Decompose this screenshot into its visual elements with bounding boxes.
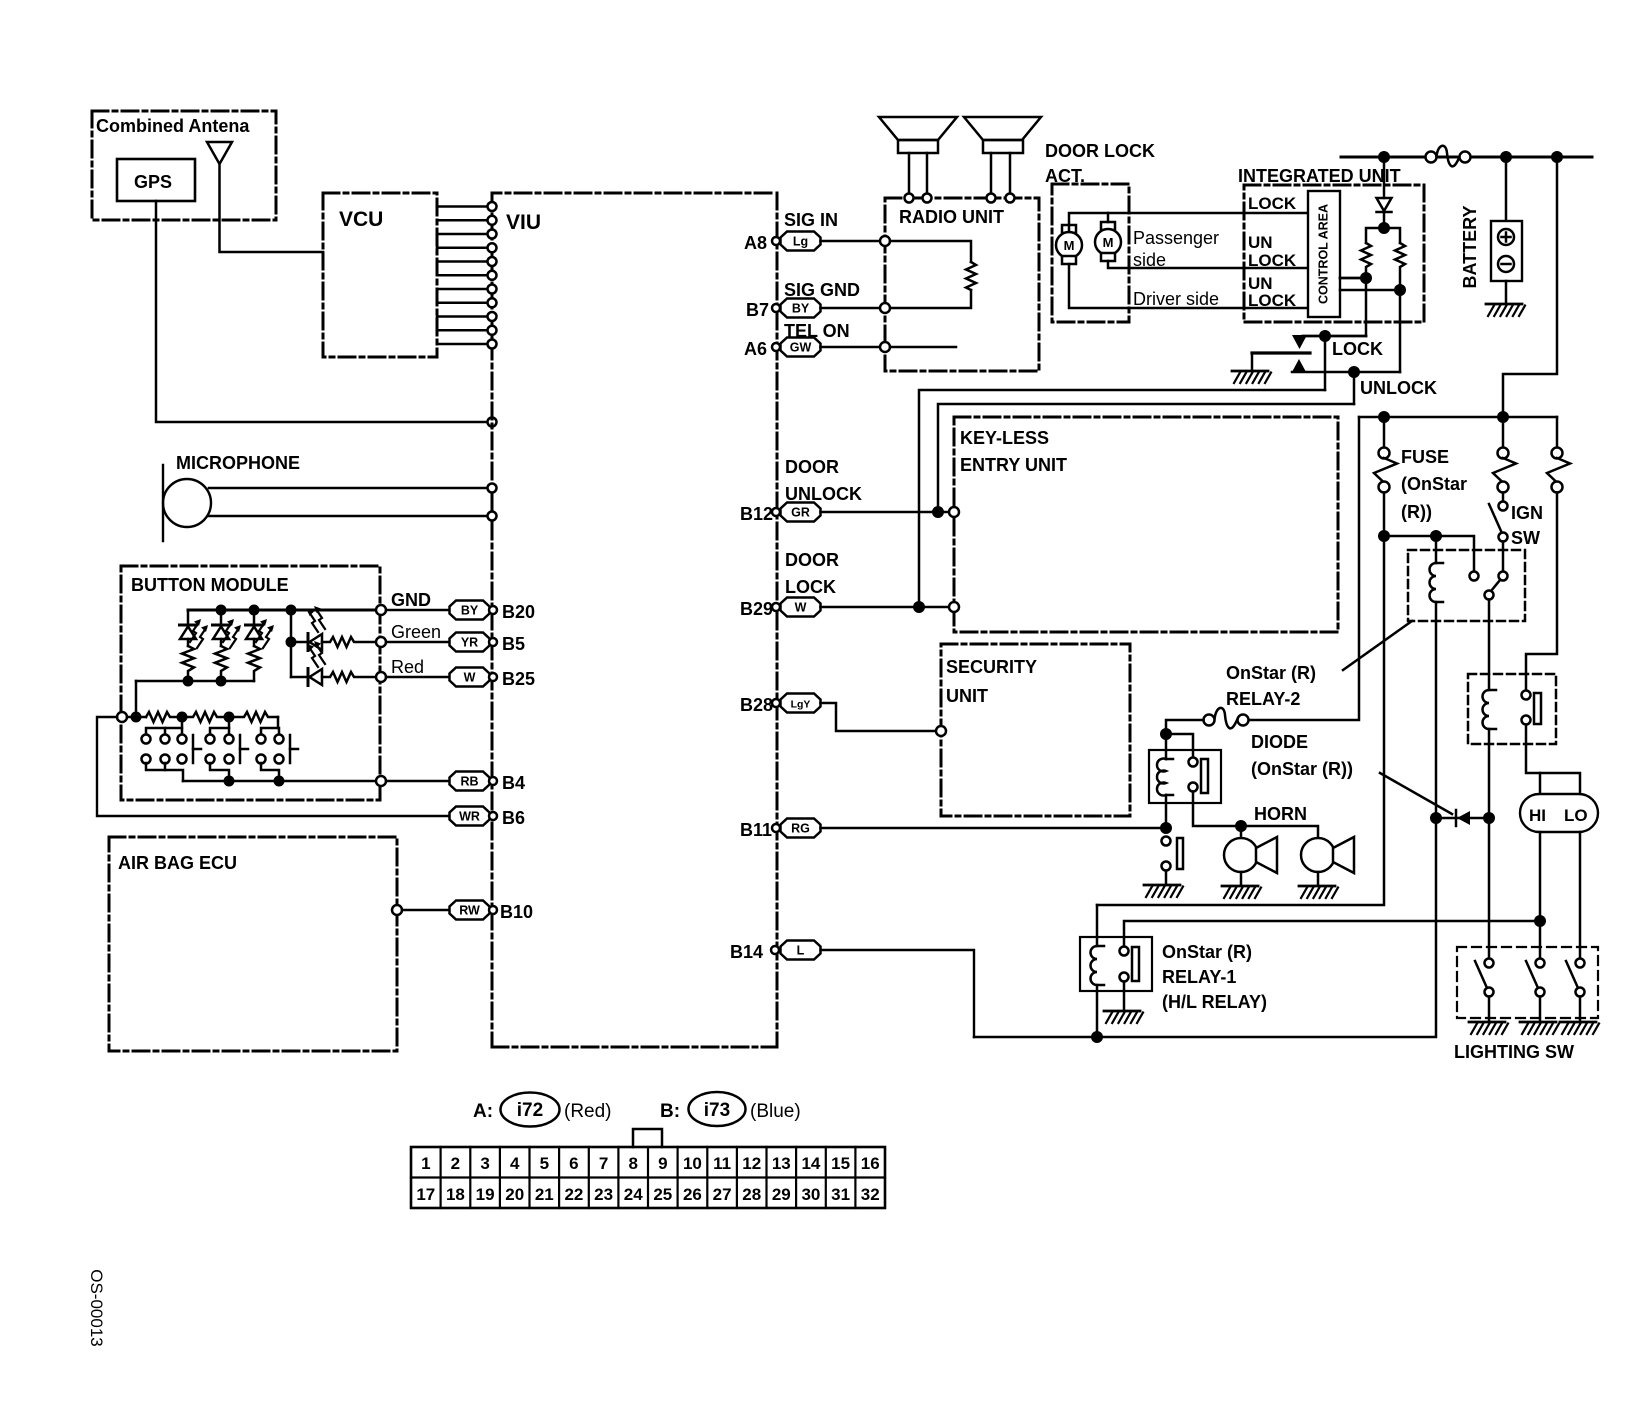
key-less input circle 1 xyxy=(949,507,959,517)
svg-text:W: W xyxy=(464,671,476,685)
node: button module GND out xyxy=(376,605,386,615)
switch SW1a contacts xyxy=(142,735,151,764)
LED D1 xyxy=(180,610,209,648)
combined antenna unit box xyxy=(92,111,276,220)
LED D3 xyxy=(246,610,275,648)
lighting switch 2 xyxy=(1526,959,1545,1021)
wire unlock node down xyxy=(1399,290,1402,372)
wire horn switch to ground xyxy=(1165,871,1168,885)
lock/unlock switch common bar xyxy=(1252,351,1310,354)
horn switch lower contact xyxy=(1162,862,1171,871)
svg-text:(OnStar: (OnStar xyxy=(1401,474,1467,494)
switch SW1c contacts xyxy=(178,735,187,764)
switch SW1b contacts xyxy=(161,735,170,764)
wire R8 to switch group 3 xyxy=(277,717,280,728)
wire fuse to IGN switch xyxy=(1502,493,1505,501)
VIU pin circle 2 xyxy=(488,216,497,225)
svg-text:1: 1 xyxy=(421,1154,430,1173)
svg-text:UN: UN xyxy=(1248,233,1273,252)
wire fuse output down xyxy=(1383,493,1386,537)
wire B6 return loop xyxy=(97,717,450,816)
wire lock line xyxy=(1069,213,1308,232)
diode D2 (OnStar) xyxy=(1456,810,1470,826)
VIU pin circle 8 xyxy=(488,298,497,307)
microphone wire + xyxy=(209,487,487,490)
VIU pin circle 3 xyxy=(488,230,497,239)
horn relay coil xyxy=(1157,734,1173,828)
svg-text:VIU: VIU xyxy=(506,211,541,234)
security input circle xyxy=(936,726,946,736)
wire lock output down-left xyxy=(1324,336,1327,390)
svg-text:YR: YR xyxy=(461,636,478,650)
connector grid horizontal divider xyxy=(411,1176,885,1178)
svg-text:LIGHTING SW: LIGHTING SW xyxy=(1454,1042,1574,1062)
pin circle B7 xyxy=(772,304,780,312)
svg-text:DOOR: DOOR xyxy=(785,550,839,570)
resistor R7 xyxy=(182,712,229,722)
IGN switch blade xyxy=(1489,504,1501,531)
wire HI lamp feed xyxy=(1539,773,1542,794)
VIU pin circle 7 xyxy=(488,285,497,294)
relay2 fixed contact circle xyxy=(1470,572,1479,581)
wire resistor to SIG GND xyxy=(890,290,971,308)
svg-text:10: 10 xyxy=(683,1154,702,1173)
lighting switch 1 xyxy=(1475,959,1494,1021)
connector i72 ellipse xyxy=(501,1093,560,1127)
node: horn1 tap xyxy=(1235,820,1247,832)
resistor R1 (LED1) xyxy=(182,646,194,681)
wire H/L relay out to lamps xyxy=(1526,725,1580,795)
svg-text:18: 18 xyxy=(446,1185,465,1204)
svg-text:VCU: VCU xyxy=(339,208,383,231)
svg-text:16: 16 xyxy=(861,1154,880,1173)
svg-text:B10: B10 xyxy=(500,902,533,922)
VIU pin circle 6 xyxy=(488,271,497,280)
resistor R3 (LED3) xyxy=(248,646,260,681)
wire resistor pair feed xyxy=(1366,228,1400,243)
switch SW3a contacts xyxy=(257,735,266,764)
ground: relay1 xyxy=(1104,1011,1143,1023)
switch group2 stem2 xyxy=(228,728,231,734)
radio unit box xyxy=(885,198,1039,371)
node: radio SIG GND junction xyxy=(880,303,890,313)
wire B7 to radio xyxy=(821,307,881,310)
VCU-VIU harness wire 10 xyxy=(437,329,486,332)
svg-text:21: 21 xyxy=(535,1185,554,1204)
node: button matrix input circle xyxy=(117,712,127,722)
wire fuse to horn relay xyxy=(1166,720,1204,734)
node: mic wire 2 at VIU xyxy=(488,512,497,521)
integrated unit box xyxy=(1244,185,1424,322)
svg-text:3: 3 xyxy=(480,1154,489,1173)
fuse (IGN circuit) xyxy=(1493,448,1516,493)
VCU-VIU harness wire 7 xyxy=(437,288,486,291)
wire GND to BY oval xyxy=(386,609,450,612)
svg-text:RG: RG xyxy=(791,822,810,836)
switch group3 stem2 xyxy=(278,728,281,734)
HI LO headlamp symbol xyxy=(1520,794,1598,832)
connector oval WR (B6) xyxy=(450,807,490,826)
node: diode cathode junction xyxy=(1378,222,1390,234)
wire B12 to key-less xyxy=(821,511,951,514)
horn 2 xyxy=(1301,837,1354,885)
svg-text:RELAY-2: RELAY-2 xyxy=(1226,689,1300,709)
switch group1 actuator bar xyxy=(193,735,201,763)
antenna stem wire xyxy=(220,164,324,252)
VIU pin circle 10 xyxy=(488,326,497,335)
svg-text:14: 14 xyxy=(801,1154,820,1173)
VCU-VIU harness wire 4 xyxy=(437,247,486,250)
wire fuse output to relay1 feed xyxy=(1097,536,1384,905)
relay1 lower contact xyxy=(1120,973,1129,982)
svg-text:LO: LO xyxy=(1564,806,1588,825)
fuse (headlamp circuit) xyxy=(1547,448,1570,493)
lighting switch box xyxy=(1457,947,1598,1018)
wire airbag to RW oval xyxy=(402,909,450,912)
wire control area to unlock node xyxy=(1340,289,1400,292)
wire relay1 contact to HI lamp xyxy=(1124,921,1540,947)
relay2 contact blade xyxy=(1491,580,1500,591)
OnStar relay-2 box xyxy=(1408,550,1525,621)
node on GND bus at LED branch xyxy=(286,605,297,616)
svg-text:KEY-LESS: KEY-LESS xyxy=(960,428,1049,448)
wire battery to ground xyxy=(1505,281,1508,303)
svg-text:12: 12 xyxy=(742,1154,761,1173)
node: button matrix out xyxy=(376,776,386,786)
LED cathode bus wire xyxy=(136,680,254,683)
svg-text:IGN: IGN xyxy=(1511,503,1543,523)
svg-text:Passenger: Passenger xyxy=(1133,228,1219,248)
wire LO lamp down xyxy=(1579,832,1582,958)
wire branch to green/red LEDs xyxy=(290,610,293,677)
svg-text:MICROPHONE: MICROPHONE xyxy=(176,453,300,473)
horn relay upper contact xyxy=(1189,758,1198,767)
connector oval YR (B5) xyxy=(450,633,490,652)
pin circle B20 xyxy=(489,606,497,614)
svg-text:24: 24 xyxy=(624,1185,643,1204)
node after R6 xyxy=(177,712,188,723)
relay2 lower contact circle xyxy=(1485,591,1494,600)
LED D2 xyxy=(213,610,242,648)
svg-text:A8: A8 xyxy=(744,233,767,253)
svg-text:WR: WR xyxy=(459,810,480,824)
node: fuse tap xyxy=(1378,411,1390,423)
svg-text:23: 23 xyxy=(594,1185,613,1204)
node: relay2 coil feed xyxy=(1430,530,1442,542)
svg-text:B4: B4 xyxy=(502,773,525,793)
svg-text:BY: BY xyxy=(461,604,479,618)
svg-text:SIG IN: SIG IN xyxy=(784,210,838,230)
node: diode cathode junction 2 xyxy=(1483,812,1495,824)
connector pin numbers row 1 xyxy=(421,1154,880,1173)
ground: horn 1 xyxy=(1222,886,1261,898)
pointer line to relay-2 xyxy=(1343,621,1412,670)
node: battery tap xyxy=(1500,151,1512,163)
node: unlock output xyxy=(1348,366,1360,378)
relay1 upper contact xyxy=(1120,947,1129,956)
wire motor2 stem up xyxy=(1107,213,1110,222)
VIU left dashed boundary xyxy=(491,193,494,1047)
svg-text:GW: GW xyxy=(790,341,812,355)
wire right branch fuse top xyxy=(1556,417,1559,447)
switch group1 bottom stem2 xyxy=(164,763,167,770)
UN LOCK row2 label xyxy=(1248,274,1297,310)
ground: lighting sw 3 xyxy=(1560,1022,1599,1034)
microphone flat element bar xyxy=(162,465,164,541)
wire rail left drop to relay2 fuse xyxy=(1249,417,1360,720)
node: mic wire 1 at VIU xyxy=(488,484,497,493)
motor M2 xyxy=(1095,222,1121,261)
svg-text:UNLOCK: UNLOCK xyxy=(1360,378,1437,398)
connector oval W (B25) xyxy=(450,668,490,687)
node: red out xyxy=(376,672,386,682)
wire relay2 coil return to B14 line xyxy=(974,818,1436,1037)
connector pin grid outline xyxy=(411,1147,885,1208)
VIU pin circle 9 xyxy=(488,312,497,321)
wire control area to lock node xyxy=(1340,277,1366,280)
wire relay1 contact to ground xyxy=(1123,982,1126,1011)
connector oval GW (A6) xyxy=(781,338,821,357)
wire green to YR oval xyxy=(386,641,450,644)
connector key tab xyxy=(633,1129,662,1147)
svg-text:5: 5 xyxy=(540,1154,549,1173)
svg-text:(H/L RELAY): (H/L RELAY) xyxy=(1162,992,1267,1012)
GPS output wire xyxy=(156,201,486,422)
H/L relay box xyxy=(1468,674,1556,744)
svg-text:2: 2 xyxy=(451,1154,460,1173)
svg-text:A6: A6 xyxy=(744,339,767,359)
key-less input circle 2 xyxy=(949,602,959,612)
VCU-VIU harness wire 2 xyxy=(437,219,486,222)
svg-text:W: W xyxy=(795,601,807,615)
resistor R2 (LED2) xyxy=(215,646,227,681)
switch group2 bottom bus xyxy=(210,763,229,781)
horn relay box xyxy=(1149,750,1221,803)
resistor R8 xyxy=(229,712,278,722)
connector oval BY (B20) xyxy=(450,601,490,620)
svg-text:RELAY-1: RELAY-1 xyxy=(1162,967,1236,987)
svg-text:A:: A: xyxy=(473,1101,493,1122)
wire unlock driver line xyxy=(1069,264,1308,308)
VCU-VIU harness wire 9 xyxy=(437,315,486,318)
svg-text:17: 17 xyxy=(416,1185,435,1204)
VIU pin circle 5 xyxy=(488,257,497,266)
IGN switch upper contact xyxy=(1499,502,1508,511)
IGN fuse wire top xyxy=(1502,417,1505,447)
node on bottom bus g3 xyxy=(274,776,285,787)
svg-text:OnStar (R): OnStar (R) xyxy=(1162,942,1252,962)
wire relay2 switch feed xyxy=(1384,536,1474,571)
resistor R5 (red) xyxy=(322,672,377,682)
svg-text:side: side xyxy=(1133,250,1166,270)
node: airbag output circle xyxy=(392,905,402,915)
VCU-VIU harness wire 6 xyxy=(437,274,486,277)
svg-text:INTEGRATED UNIT: INTEGRATED UNIT xyxy=(1238,166,1401,186)
svg-text:Lg: Lg xyxy=(793,235,808,249)
pin circle B10 xyxy=(489,906,497,914)
door lock actuator box xyxy=(1052,184,1129,322)
horn switch upper contact xyxy=(1162,837,1171,846)
wire red to W oval xyxy=(386,676,450,679)
wire B29 to key-less xyxy=(821,606,951,609)
wire unlock output down-left xyxy=(1353,372,1356,404)
switch group1 top bus xyxy=(146,717,182,734)
svg-text:(Blue): (Blue) xyxy=(750,1101,801,1122)
svg-text:LOCK: LOCK xyxy=(1248,251,1297,270)
wire matrix out to RB oval xyxy=(386,780,450,783)
ground: lock switch xyxy=(1232,371,1271,383)
svg-text:RW: RW xyxy=(459,904,480,918)
node: GPS wire to VIU xyxy=(488,418,497,427)
wire headlamp feed to H/L relay contact xyxy=(1526,493,1557,691)
svg-text:GPS: GPS xyxy=(134,172,172,192)
switch SW3b contacts xyxy=(275,735,284,764)
OnStar relay-1 box xyxy=(1080,937,1152,991)
switch SW2a contacts xyxy=(206,735,215,764)
node: relay1 coil tap xyxy=(1091,1031,1103,1043)
connector grid vertical dividers xyxy=(441,1147,856,1208)
ground: lighting sw 1 xyxy=(1469,1022,1508,1034)
node after R7 xyxy=(224,712,235,723)
svg-text:SW: SW xyxy=(1511,528,1540,548)
svg-text:6: 6 xyxy=(569,1154,578,1173)
node: diode feed tap xyxy=(1378,151,1390,163)
security unit box xyxy=(941,644,1130,816)
svg-text:GND: GND xyxy=(391,590,431,610)
node: lock output xyxy=(1319,330,1331,342)
switch common bottom bus wire xyxy=(183,780,377,783)
svg-text:26: 26 xyxy=(683,1185,702,1204)
H/L relay coil xyxy=(1483,690,1496,818)
VIU unit boundary box xyxy=(492,193,776,200)
antenna symbol xyxy=(207,142,232,164)
wire unlock passenger line xyxy=(1108,261,1308,268)
switch group3 actuator bar xyxy=(290,735,298,763)
pin circle B5 xyxy=(489,638,497,646)
fusible link symbol xyxy=(1426,146,1471,167)
svg-text:CONTROL AREA: CONTROL AREA xyxy=(1316,204,1330,304)
wire unlock up to integrated unit xyxy=(938,404,1354,512)
microphone symbol xyxy=(163,479,211,527)
svg-text:B11: B11 xyxy=(740,820,772,840)
battery symbol xyxy=(1491,221,1522,281)
svg-text:B7: B7 xyxy=(746,300,769,320)
H/L relay contact bar xyxy=(1534,693,1541,724)
diode D1 (integrated unit) xyxy=(1377,157,1392,228)
pin circle B12 xyxy=(772,508,780,516)
node: right feed tap xyxy=(1551,151,1563,163)
svg-text:4: 4 xyxy=(510,1154,520,1173)
svg-text:SIG GND: SIG GND xyxy=(784,280,860,300)
node on cathode bus 2 xyxy=(216,676,227,687)
svg-text:(OnStar (R)): (OnStar (R)) xyxy=(1251,759,1353,779)
wire cathode bus down to resistor row xyxy=(135,681,138,717)
VIU pin circle 11 xyxy=(488,340,497,349)
svg-text:UNIT: UNIT xyxy=(946,686,988,706)
GPS module box xyxy=(117,159,195,201)
horn relay lower contact xyxy=(1189,783,1198,792)
GND bus wire xyxy=(188,609,377,612)
svg-text:(Red): (Red) xyxy=(564,1101,612,1122)
wire right feed drop xyxy=(1503,157,1557,417)
VCU-VIU harness wire 5 xyxy=(437,260,486,263)
connector i73 ellipse xyxy=(689,1092,746,1126)
H/L relay lower contact xyxy=(1522,716,1531,725)
svg-text:GR: GR xyxy=(791,506,810,520)
svg-text:ENTRY UNIT: ENTRY UNIT xyxy=(960,455,1067,475)
node on GND bus at LED2 xyxy=(216,605,227,616)
resistor R6 xyxy=(146,712,182,722)
node: door unlock junction xyxy=(932,506,944,518)
node: door lock junction xyxy=(913,601,925,613)
svg-text:HORN: HORN xyxy=(1254,804,1307,824)
svg-text:13: 13 xyxy=(772,1154,791,1173)
switch group2 actuator bar xyxy=(240,735,248,763)
wire IGN out down to H/L relay coil xyxy=(1488,600,1491,691)
svg-text:7: 7 xyxy=(599,1154,608,1173)
ignition power rail xyxy=(1359,416,1557,419)
svg-text:RADIO UNIT: RADIO UNIT xyxy=(899,207,1004,227)
pointer line to diode xyxy=(1380,773,1452,814)
pin circle A6 xyxy=(772,343,780,351)
wire A6 to radio xyxy=(821,346,881,349)
wire A8 to radio xyxy=(821,240,881,243)
horn relay contact bar xyxy=(1201,759,1208,793)
lighting switch 3 xyxy=(1566,959,1585,1021)
svg-text:B29: B29 xyxy=(740,599,773,619)
wire lock up to integrated unit xyxy=(919,390,1325,607)
node at green LED branch xyxy=(286,637,297,648)
relay1 contact bar xyxy=(1132,947,1139,981)
switch group1 stem 3 xyxy=(181,728,184,734)
connector oval RW (B10) xyxy=(450,901,490,920)
wire lighting feed down xyxy=(1488,818,1491,958)
svg-text:25: 25 xyxy=(653,1185,672,1204)
svg-text:AIR BAG ECU: AIR BAG ECU xyxy=(118,853,237,873)
switch group1 stem 2 xyxy=(164,728,167,734)
svg-text:OnStar (R): OnStar (R) xyxy=(1226,663,1316,683)
node on GND bus at LED3 xyxy=(249,605,260,616)
svg-text:19: 19 xyxy=(476,1185,495,1204)
VCU-VIU harness wire 8 xyxy=(437,302,486,305)
svg-text:B20: B20 xyxy=(502,602,535,622)
node on cathode bus 1 xyxy=(183,676,194,687)
relay2 moving contact circle xyxy=(1499,572,1508,581)
VIU bottom dashed boundary xyxy=(492,1046,777,1049)
svg-text:27: 27 xyxy=(713,1185,732,1204)
ground: horn 2 xyxy=(1299,886,1338,898)
svg-text:UNLOCK: UNLOCK xyxy=(785,484,862,504)
wire resistor row start xyxy=(127,716,146,719)
pin circle B29 xyxy=(772,603,780,611)
svg-text:Red: Red xyxy=(391,657,424,677)
wire HI lamp down xyxy=(1539,832,1542,958)
svg-text:HI: HI xyxy=(1529,806,1546,825)
svg-text:LOCK: LOCK xyxy=(1248,291,1297,310)
svg-text:15: 15 xyxy=(831,1154,850,1173)
connector oval RB (B4) xyxy=(450,772,490,791)
speaker 1 xyxy=(879,117,957,194)
speaker pin circle 3 xyxy=(987,194,996,203)
node: lock resistor junction xyxy=(1360,272,1372,284)
connector oval RG (B11) xyxy=(781,819,821,838)
pin circle B11 xyxy=(772,824,780,832)
connector oval L (B14) xyxy=(781,941,821,960)
svg-text:32: 32 xyxy=(861,1185,880,1204)
connector oval Lg (A8) xyxy=(781,232,821,251)
LED D5 (red) xyxy=(291,641,325,686)
svg-text:LOCK: LOCK xyxy=(1248,194,1297,213)
